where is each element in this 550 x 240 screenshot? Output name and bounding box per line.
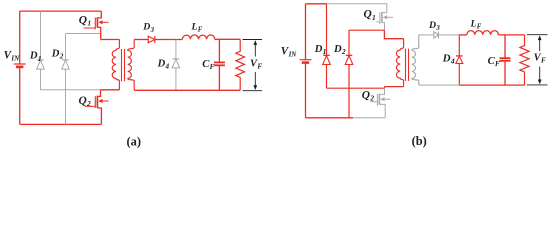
wire D1 lower lead (b) bbox=[326, 65, 328, 89]
transformer T primary winding (a) bbox=[112, 40, 119, 90]
wire top rail (a) bbox=[20, 10, 102, 12]
diode D3 (b) bbox=[434, 32, 439, 38]
transistor Q2 (a) drain lead bbox=[97, 90, 100, 97]
wire Q1 source to primary (a) bbox=[101, 39, 120, 41]
wire secondary top to D3 (a) bbox=[134, 39, 148, 41]
transformer T core (b) bbox=[405, 49, 407, 81]
wire D1 upper lead (a) bbox=[40, 11, 42, 60]
wire D4 upper lead (b) bbox=[458, 35, 460, 56]
inductor LF (b) bbox=[467, 31, 499, 35]
wire LF to corner (b) bbox=[499, 34, 525, 36]
wire battery negative lead (b) bbox=[305, 64, 307, 118]
transistor Q1 (b) source lead bbox=[382, 23, 385, 31]
transistor Q1 (b) drain lead bbox=[382, 12, 387, 14]
transistor Q2 (b) body-diode arrow bbox=[385, 98, 391, 100]
wire D4 to LF (b) bbox=[459, 34, 467, 36]
transformer T secondary winding (b) bbox=[412, 35, 419, 85]
wire D2 lower lead (a) bbox=[65, 69, 67, 124]
capacitor CF (b) bbox=[500, 57, 511, 59]
wire secondary top to D3 (b) bbox=[419, 34, 434, 36]
svg-text:(a): (a) bbox=[127, 134, 141, 148]
wire D4 upper lead (a) bbox=[175, 40, 177, 59]
transistor Q1 (a) drain lead bbox=[97, 11, 101, 18]
wire bottom output rail red part (b) bbox=[459, 84, 524, 86]
diode D4 (a) bbox=[173, 58, 180, 60]
transistor Q2 (a) gate stub bbox=[85, 105, 96, 107]
wire D1 to Q2 drain node (b) bbox=[327, 87, 385, 89]
wire D1 to Q2 drain node (a) bbox=[41, 89, 101, 91]
diode D4 (b) bbox=[456, 55, 463, 57]
wire CF lower lead (a) bbox=[218, 65, 220, 90]
wire D1 upper lead (b) bbox=[326, 4, 328, 56]
wire LF to corner (a) bbox=[215, 38, 241, 40]
transistor Q2 (b) source lead bbox=[379, 104, 385, 117]
battery VIN (b) bbox=[300, 59, 312, 61]
wire D2 upper lead (a) bbox=[65, 34, 67, 60]
transformer T core (a) bbox=[121, 49, 123, 81]
wire D4 lower lead (a) bbox=[175, 68, 177, 90]
transistor Q2 (b) gate bar bbox=[376, 94, 378, 106]
transistor Q1 (b) channel bar bbox=[381, 12, 383, 23]
inductor LF (a) bbox=[182, 35, 214, 39]
wire Q2 drain jog (b) bbox=[384, 87, 386, 89]
transistor Q1 (a) source lead bbox=[97, 27, 100, 39]
resistor load (b) bbox=[520, 35, 529, 85]
wire primary bottom to junction (b) bbox=[385, 86, 404, 88]
wire bottom output rail (a) bbox=[134, 89, 240, 91]
capacitor CF (a) bbox=[214, 61, 225, 63]
diode D1 (b) bbox=[323, 54, 330, 56]
diode D2 (b) bbox=[346, 54, 353, 56]
diode D2 (a) bbox=[62, 59, 69, 61]
wire bottom rail red part (b) bbox=[306, 117, 354, 119]
wire CF upper lead (a) bbox=[218, 39, 220, 62]
transistor Q1 (b) body-diode arrow bbox=[387, 16, 393, 18]
wire source node to primary top (b) bbox=[384, 30, 403, 39]
wire bottom output rail gray part (b) bbox=[419, 84, 460, 86]
svg-text:(b): (b) bbox=[412, 134, 427, 148]
wire CF upper lead (b) bbox=[504, 35, 506, 58]
transistor Q2 (a) body-diode arrow bbox=[103, 100, 109, 102]
wire D3 to D4 node (b) bbox=[438, 34, 459, 36]
wire D2 to Q1 source node (a) bbox=[66, 33, 101, 35]
wire D2 to Q1 source node (b) bbox=[349, 29, 384, 31]
wire primary bottom to Q2 drain (a) bbox=[101, 89, 120, 91]
transistor Q2 (b) channel bar bbox=[378, 94, 380, 105]
transformer T secondary winding (a) bbox=[128, 40, 135, 91]
diode D3 (a) bbox=[148, 36, 155, 43]
wire D2 upper lead (b) bbox=[348, 30, 350, 55]
transistor Q1 (a) body-diode arrow bbox=[103, 21, 109, 23]
wire bottom rail gray part (b) bbox=[353, 117, 385, 119]
wire battery positive lead (a) bbox=[19, 11, 21, 64]
wire battery negative lead (a) bbox=[19, 68, 21, 124]
arrow VF measurement (b) bbox=[527, 34, 548, 36]
transistor Q1 (a) gate stub bbox=[84, 27, 96, 29]
transistor Q1 (b) gate bar bbox=[379, 12, 381, 24]
transistor Q1 (a) gate bar bbox=[94, 18, 96, 30]
wire Q1 drain loop (b) bbox=[327, 4, 387, 13]
transistor Q2 (a) channel bar bbox=[96, 96, 98, 108]
arrow VF measurement (a) bbox=[243, 39, 262, 41]
wire D2 lower lead (b) bbox=[348, 65, 350, 118]
transistor Q2 (a) gate bar bbox=[94, 96, 96, 108]
diode D1 (a) bbox=[37, 59, 44, 61]
wire D3 to LF (a) bbox=[155, 39, 183, 41]
wire D1 lower lead (a) bbox=[40, 69, 42, 90]
transistor Q1 (a) channel bar bbox=[96, 17, 98, 28]
transformer T primary winding (b) bbox=[396, 39, 403, 87]
wire CF lower lead (b) bbox=[504, 61, 506, 85]
transistor Q2 (b) drain lead bbox=[379, 88, 384, 94]
transistor Q2 (a) source lead bbox=[97, 108, 101, 124]
transistor Q2 (b) gate stub bbox=[370, 101, 377, 103]
transistor Q1 (b) gate stub bbox=[376, 21, 380, 23]
wire D4 lower lead (b) bbox=[458, 63, 460, 85]
wire battery positive lead (b) bbox=[305, 4, 307, 60]
battery VIN (a) bbox=[14, 63, 26, 65]
resistor load (a) bbox=[236, 39, 245, 90]
wire bottom rail (a) bbox=[20, 123, 102, 125]
wire top rail (b) bbox=[306, 3, 327, 5]
